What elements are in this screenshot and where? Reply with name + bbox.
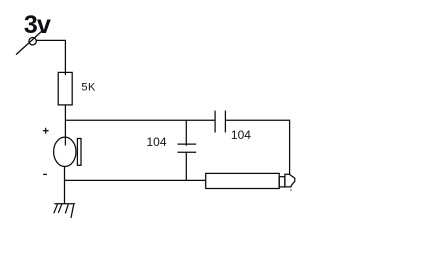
power terminal (3v input): [16, 31, 42, 54]
capacitor C1 104 (shunt, vertical): [178, 144, 197, 152]
ground: [54, 204, 75, 218]
svg-text:5K: 5K: [81, 82, 96, 94]
resistor R1: [58, 72, 72, 105]
wire resistor R1 bottom to microphone: [64, 105, 66, 146]
plus label: [43, 128, 49, 134]
svg-text:104: 104: [147, 135, 167, 149]
wire series capacitor to right corner, down to jack tip: [225, 120, 289, 174]
wire shunt branch bottom: [185, 152, 187, 180]
wire mic minus down to ground: [64, 166, 66, 203]
wire shunt branch top: [185, 120, 187, 145]
wire corner down to resistor R1 top: [64, 40, 66, 75]
jack plug J1 ring: [279, 177, 285, 187]
wire bottom rail (mic - node to jack sleeve): [65, 179, 206, 181]
svg-text:104: 104: [231, 128, 251, 142]
wire terminal to corner: [36, 39, 66, 41]
minus label: [43, 173, 47, 175]
jack plug J1 tip: [285, 174, 295, 187]
jack plug J1 (sleeve barrel): [206, 173, 280, 188]
wire top rail (mic + node to series capacitor): [65, 119, 215, 121]
speck below jack tip: [290, 190, 291, 191]
capacitor C2 104 (series, horizontal): [215, 111, 225, 133]
microphone MIC1: [54, 137, 81, 166]
